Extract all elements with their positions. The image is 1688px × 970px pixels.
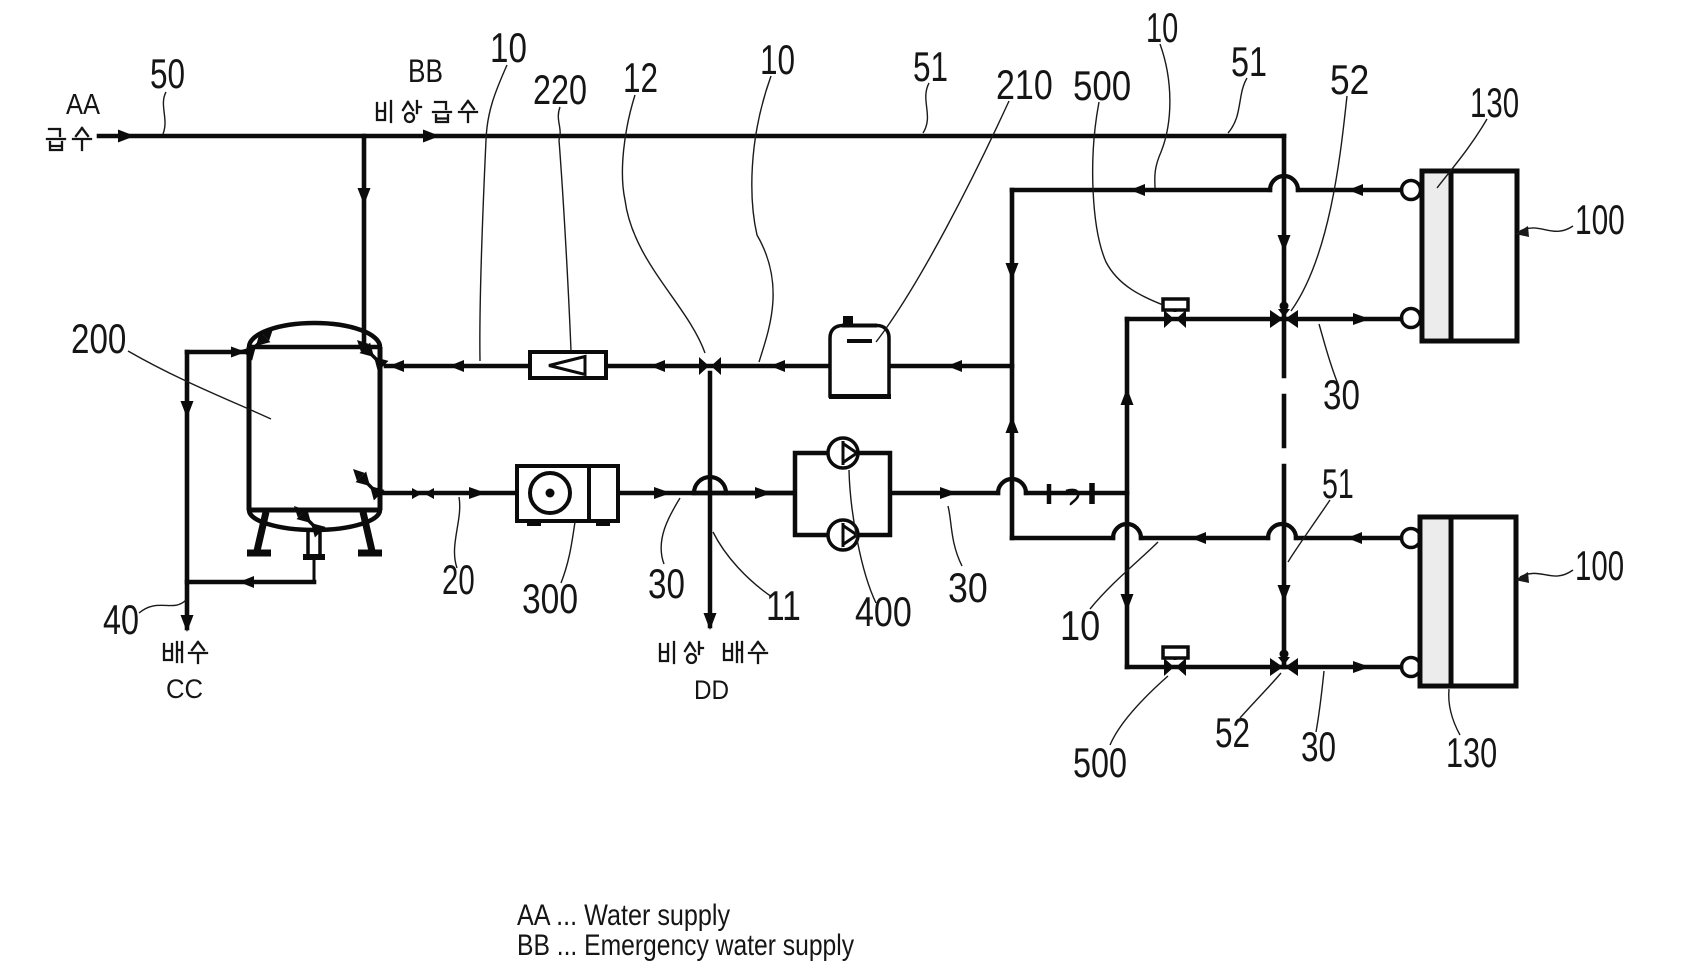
arrow left on HX top line at 1130 <box>1130 184 1145 196</box>
pump P2 (bottom circle) <box>828 520 858 550</box>
arrow left on HX top line at 1348 <box>1348 184 1363 196</box>
arrow left on return line into tank <box>389 360 404 372</box>
svg-text:500: 500 <box>1073 739 1127 786</box>
svg-text:100: 100 <box>1575 196 1625 243</box>
tube sheet 130 (bottom HX divider) <box>1449 517 1454 686</box>
arrow left on bottom HX line at 1191 <box>1191 532 1206 544</box>
flexible connector on line 30 <box>1049 483 1092 505</box>
arrow right on line 30 at 772 <box>755 487 772 499</box>
heat exchanger 100 (top) <box>1402 171 1518 341</box>
arrowhead at drain outlet CC <box>181 615 194 632</box>
arrow left on return line at 770 <box>770 360 785 372</box>
svg-text:200: 200 <box>71 316 126 363</box>
svg-text:BB ... Emergency water supply: BB ... Emergency water supply <box>517 928 854 962</box>
leader 30 (top right) <box>1319 324 1338 384</box>
wire branch to tank 200 at x=364 <box>362 136 367 350</box>
valve at tank 200 top-left port <box>242 324 279 361</box>
hop bridge at (1012,493) <box>998 479 1026 493</box>
svg-text:500: 500 <box>1073 63 1131 110</box>
tank 200 top dome <box>249 323 380 347</box>
leader 51 (left) <box>923 83 929 133</box>
leader lines <box>128 44 1573 745</box>
svg-text:30: 30 <box>948 565 988 611</box>
leader 500 (bottom) <box>1110 676 1168 745</box>
svg-text:130: 130 <box>1446 729 1497 776</box>
valve 12 <box>699 357 721 375</box>
leader 30 (drain) <box>661 498 680 564</box>
leader 130 (bottom) <box>1449 689 1460 735</box>
svg-text:30: 30 <box>648 561 685 608</box>
arrow up on riser x=1127 <box>1121 388 1134 405</box>
port nozzle bottom <box>1402 309 1421 328</box>
korean 비상 배수 (emergency drain, at DD) <box>660 642 767 663</box>
svg-text:10: 10 <box>1146 4 1178 52</box>
tube sheet 130 (top HX divider) <box>1449 171 1454 341</box>
wire tank bottom drain drop <box>313 558 316 582</box>
three-way valve 52 (top) <box>1270 302 1298 329</box>
svg-text:30: 30 <box>1301 723 1336 771</box>
wire valve 500 top branch y=319 <box>1127 317 1401 322</box>
arrow down on riser x=1127 <box>1121 594 1134 611</box>
svg-text:51: 51 <box>1322 459 1354 507</box>
arrow right into bottom HX lower port <box>1353 661 1370 673</box>
svg-text:CC: CC <box>166 673 203 704</box>
svg-text:130: 130 <box>1470 79 1519 127</box>
flow arrows <box>118 130 1370 674</box>
korean 급수 (water supply, at AA) <box>47 128 91 150</box>
numeric reference labels <box>71 4 1625 786</box>
svg-text:30: 30 <box>1323 372 1360 419</box>
arrowhead at emergency drain DD <box>704 613 717 630</box>
svg-text:300: 300 <box>522 577 578 623</box>
wire pump discharge line 30 with hops over x=710 and x=1012 <box>694 491 1127 496</box>
svg-text:50: 50 <box>150 50 185 98</box>
wire pump suction line 20 from tank to unit 300 <box>382 491 517 496</box>
check valve on line 20 <box>412 488 434 499</box>
svg-text:12: 12 <box>623 54 658 102</box>
heat exchanger 100 (bottom) <box>1402 517 1517 686</box>
svg-text:10: 10 <box>490 25 527 72</box>
arrow down on collector x=1012 <box>1006 263 1019 280</box>
valve at tank 200 top-right port <box>352 335 389 372</box>
expansion tank 210 <box>829 316 891 397</box>
leader 300 <box>561 522 575 583</box>
svg-text:400: 400 <box>855 589 912 636</box>
wire vertical drop at x=1284 (line 51) solid upper part <box>1282 136 1287 376</box>
arrow right on line 30 at 957 <box>940 487 957 499</box>
svg-text:100: 100 <box>1575 542 1624 590</box>
korean text (drawn glyphs) <box>47 101 767 663</box>
wire dashed continuation on x=1284 <box>1282 396 1287 446</box>
leader 52 (bottom) <box>1240 673 1281 718</box>
leader 12 <box>622 95 705 353</box>
leader 50 <box>163 92 166 134</box>
three-way valve 52 (bottom) <box>1270 650 1298 677</box>
arrow left on bottom HX line at 1347 <box>1347 532 1362 544</box>
leader 100 (top) with arrowhead <box>1520 226 1573 231</box>
wire vertical x=1284 lower solid part <box>1282 466 1287 667</box>
arrow down on x=1284 upper <box>1278 235 1291 252</box>
pump skid 400 <box>795 438 890 550</box>
leader 20 <box>454 497 459 568</box>
arrow right into tank top-left port <box>231 347 246 358</box>
leader 51 (bottom) <box>1288 500 1330 562</box>
arrow left on tank bottom drain <box>239 576 254 588</box>
wire bottom heat exchanger outlet line y=538 with hops <box>1012 536 1401 541</box>
leader 11 <box>713 532 772 597</box>
arrow right on line 20 <box>469 487 486 499</box>
wire heat exchanger top outlet line at y=190 with hop over x=1284 <box>1012 188 1401 193</box>
wire valve 500 bottom branch y=667 <box>1127 665 1401 670</box>
arrow down on x=1284 lower <box>1278 585 1291 602</box>
arrow right on line 30 at 671 <box>654 487 671 499</box>
filter 220 <box>530 352 606 378</box>
port nozzle top <box>1402 529 1421 548</box>
svg-text:52: 52 <box>1215 709 1250 757</box>
svg-text:20: 20 <box>442 556 475 604</box>
leader 200 <box>128 351 271 419</box>
booster unit 300 <box>517 466 618 526</box>
leader 210 <box>876 101 1009 342</box>
svg-text:51: 51 <box>1231 38 1267 85</box>
svg-text:10: 10 <box>760 36 795 84</box>
leader 30 (bottom) <box>1316 671 1324 732</box>
wire drain riser 40 at x=187 <box>185 352 190 628</box>
svg-text:220: 220 <box>533 66 587 113</box>
svg-text:AA: AA <box>66 87 101 120</box>
wire tank bottom drain horizontal y=582 <box>187 580 314 585</box>
motorized valve 500 (top) <box>1163 299 1188 328</box>
hop bridge at (710,493) <box>694 477 726 493</box>
arrow right on main line at x=440 <box>423 130 440 143</box>
wire return line 10 at y=366 <box>386 364 1012 369</box>
leader 52 (top) <box>1291 96 1347 311</box>
leader 100 (bottom) with arrowhead <box>1520 570 1573 577</box>
arrow right on main line near AA <box>118 130 135 143</box>
tank 200 right leg <box>363 512 372 551</box>
leader 10 (first) <box>480 65 507 361</box>
port nozzle top <box>1402 181 1421 200</box>
svg-text:40: 40 <box>103 596 139 643</box>
svg-text:210: 210 <box>996 62 1053 109</box>
arrow down on drain riser x=187 <box>181 401 194 418</box>
wire drain header to node at (187,352) <box>187 350 246 355</box>
wire line 30 from unit 300 to pump 400 <box>618 491 795 496</box>
svg-text:AA ... Water supply: AA ... Water supply <box>517 898 730 932</box>
tank 200 bottom nozzle pipe <box>308 529 320 556</box>
svg-text:BB: BB <box>408 55 443 90</box>
hop bridge at (1284,538) <box>1268 524 1296 538</box>
svg-text:DD: DD <box>694 676 729 705</box>
svg-text:52: 52 <box>1330 57 1369 104</box>
tank 200 body <box>247 323 382 557</box>
arrow up on collector x=1012 <box>1006 416 1019 433</box>
arrow down on branch x=364 <box>358 188 371 205</box>
svg-text:51: 51 <box>913 43 948 91</box>
wire emergency drain line 11 <box>708 373 713 626</box>
arrow right into top HX lower port <box>1353 313 1370 325</box>
tank 200 left leg <box>257 512 266 551</box>
tank 200 bottom dish <box>249 510 380 530</box>
valve at tank 200 lower-right port <box>348 464 385 501</box>
wire vertical collector x=1012 <box>1010 190 1015 538</box>
korean 비상 급수 (emergency water supply, at BB) <box>377 101 477 122</box>
korean 배수 (drain, at CC) <box>164 642 207 663</box>
leader 51 (second) <box>1228 78 1247 133</box>
pump P1 (top circle) <box>828 438 858 468</box>
leader 30 (pump discharge) <box>948 506 962 566</box>
hop bridge at (1127,538) <box>1113 524 1141 538</box>
svg-text:10: 10 <box>1060 604 1100 650</box>
port nozzle bottom <box>1402 658 1421 677</box>
arrow left on return line at 947 <box>947 360 962 372</box>
leader 10 (second) <box>752 76 773 362</box>
motorized valve 500 (bottom) <box>1163 647 1188 676</box>
leader 400 <box>849 470 876 603</box>
leader 10 (third) <box>1155 44 1170 188</box>
hop bridge at (1284,190) <box>1270 176 1298 190</box>
svg-text:11: 11 <box>766 584 801 630</box>
leader 130 (top) <box>1437 119 1487 188</box>
leader 220 <box>558 107 571 351</box>
arrow left on return line at 450 <box>449 360 464 372</box>
leader 500 (top) <box>1093 102 1163 305</box>
wire riser x=1127 between valve lines <box>1125 319 1130 667</box>
leader 40 <box>139 600 186 613</box>
arrow left on return line at 650 <box>650 360 665 372</box>
leader 10 (bottom) <box>1090 542 1158 609</box>
wire main supply line 50 (AA to corner) <box>99 134 1284 139</box>
valve at tank 200 bottom port <box>289 501 326 538</box>
latin node labels <box>66 55 854 962</box>
